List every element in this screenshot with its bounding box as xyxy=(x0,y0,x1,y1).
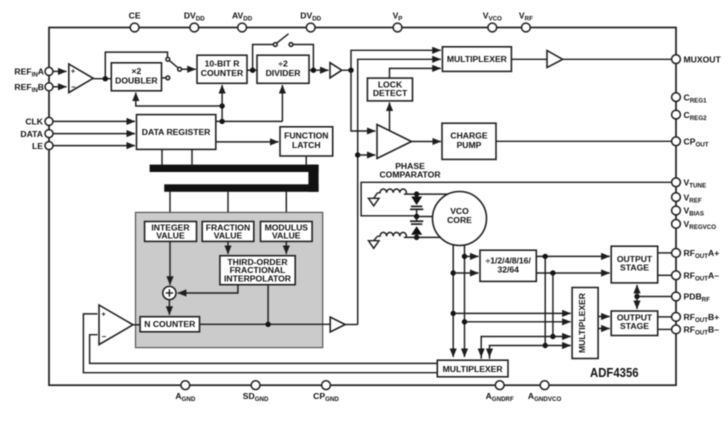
svg-text:FUNCTION: FUNCTION xyxy=(284,131,328,141)
left pin CLK xyxy=(25,117,53,127)
right pin PDBRF xyxy=(672,292,711,304)
wire data register R-control stub xyxy=(216,120,283,122)
svg-text:ADF4356: ADF4356 xyxy=(590,365,639,380)
wire divider out 1 down xyxy=(544,256,546,345)
wire LE to data register xyxy=(54,145,136,147)
wire interpolator to summer xyxy=(178,285,238,293)
svg-text:DATA REGISTER: DATA REGISTER xyxy=(142,127,211,137)
feedback comparator buffer xyxy=(99,305,133,345)
wire to RF divider input 2 xyxy=(453,272,478,274)
wire output stage A to RFoutA- xyxy=(658,274,672,276)
summer node xyxy=(163,286,176,299)
switch contact (doubler out) xyxy=(166,76,170,80)
wire mux to output buffer xyxy=(511,58,547,60)
node hook B xyxy=(550,334,555,339)
switch blade xyxy=(169,60,178,68)
wire output stage B to RFoutB- xyxy=(658,328,672,330)
sigma-delta engine block (gray) xyxy=(136,212,323,347)
wire R counter to divider xyxy=(247,69,257,71)
wire divider out 2 down xyxy=(552,273,554,337)
node RF divider input 2 xyxy=(451,270,456,275)
wire data register drop 1 to bus xyxy=(161,149,163,164)
switch contact left (divider bypass) xyxy=(273,43,277,47)
svg-text:STAGE: STAGE xyxy=(620,321,649,331)
N counter xyxy=(140,317,199,332)
charge pump xyxy=(442,123,496,159)
wire N counter output xyxy=(200,323,331,325)
wire buffer to feedback vertical xyxy=(345,324,358,326)
wire control vertical xyxy=(221,106,223,121)
phase comparator xyxy=(377,125,412,159)
svg-text:MULTIPLEXER: MULTIPLEXER xyxy=(577,292,587,353)
wire buffer out to doubler xyxy=(93,78,111,80)
node PDBRF xyxy=(634,294,639,299)
node divider out 1 xyxy=(543,254,548,259)
bottom pin CPGND xyxy=(313,381,339,403)
right pin RFOUTB+ xyxy=(672,312,720,324)
node after buffer xyxy=(348,68,353,73)
wire phase comparator to lock detect xyxy=(389,103,391,131)
doubler X2 xyxy=(111,63,161,91)
output stage B xyxy=(611,311,658,336)
node interpolator feedback xyxy=(265,322,270,327)
node RF divider input 1 xyxy=(462,254,467,259)
modulus value xyxy=(261,222,313,242)
ground symbol (top coil) xyxy=(369,193,380,206)
node varactor middle xyxy=(414,214,419,219)
arrow PDBRF to output stage A xyxy=(636,285,638,297)
wire top coil to VCO xyxy=(404,193,452,195)
wire VCO output B (right vertical) xyxy=(464,245,466,357)
svg-text:÷2: ÷2 xyxy=(278,58,288,68)
svg-text:DATA: DATA xyxy=(20,129,43,139)
svg-text:CHARGE: CHARGE xyxy=(450,131,488,141)
right pin RFOUTB- xyxy=(672,325,720,337)
inductor (top) xyxy=(378,189,407,194)
wire RF divider out 1 to output stage A xyxy=(536,255,609,257)
svg-text:DIVIDER: DIVIDER xyxy=(266,68,302,78)
node on stub xyxy=(219,119,224,124)
left pin LE xyxy=(32,141,53,151)
multiplexer (top) xyxy=(442,47,511,72)
wire summer to N counter xyxy=(168,300,170,315)
left pin REFinA xyxy=(14,67,53,79)
svg-text:CORE: CORE xyxy=(447,215,472,225)
bottom pin AGNDVCO xyxy=(528,381,562,403)
VCO core xyxy=(433,192,487,246)
wire interpolator down to N counter output xyxy=(267,285,269,325)
node varactor top xyxy=(414,191,419,196)
node hook A xyxy=(543,343,548,348)
wire RF divider out 2 to output stage A xyxy=(536,272,609,274)
wire divider to buffer xyxy=(309,69,329,71)
wire data register drop 2 to bus xyxy=(191,149,193,164)
node control tee xyxy=(219,103,224,108)
wire bypass to divider output node xyxy=(293,45,314,71)
switch contact (bypass) xyxy=(166,57,170,61)
wire divider bypass (up and over) xyxy=(253,45,274,71)
svg-text:+: + xyxy=(102,311,106,318)
svg-text:10-BIT R: 10-BIT R xyxy=(205,58,241,68)
wire CLK to data register xyxy=(54,120,136,122)
wire switch pole to R counter xyxy=(182,68,196,70)
node at divider output xyxy=(311,68,316,73)
svg-text:VALUE: VALUE xyxy=(272,231,301,241)
fraction value xyxy=(202,222,254,242)
svg-text:DOUBLER: DOUBLER xyxy=(115,76,158,86)
svg-text:PUMP: PUMP xyxy=(457,140,482,150)
right pin VTUNE xyxy=(672,178,706,190)
svg-text:32/64: 32/64 xyxy=(497,265,519,275)
wire doubler bypass (up and over) xyxy=(105,52,167,79)
right pin CPOUT xyxy=(672,137,709,149)
top pin DVDD (1) xyxy=(184,11,205,32)
svg-text:MULTIPLEXER: MULTIPLEXER xyxy=(443,364,504,374)
wire bus to fraction value xyxy=(227,192,229,222)
wire data register to function latch xyxy=(216,141,279,143)
wire vertical mux to output stage B in 1 xyxy=(598,316,610,318)
wire control to R counter bottom xyxy=(221,85,223,106)
integer value xyxy=(145,222,197,242)
data register xyxy=(137,115,216,150)
wire feedback vertical to mux input 2 xyxy=(358,59,441,324)
wire integer value to summer xyxy=(169,241,171,284)
chip outer border xyxy=(49,28,676,386)
node VCO B to vertical mux xyxy=(462,319,467,324)
wire VTUNE to varactors xyxy=(361,182,671,216)
wire REFinA to input buffer xyxy=(54,70,67,72)
wire VCO output A (left vertical) xyxy=(452,244,454,357)
top pin DVDD (2) xyxy=(300,11,321,32)
divider by 2 xyxy=(257,55,309,83)
wire vertical mux to output stage B in 2 xyxy=(598,328,610,330)
switch contact right xyxy=(289,43,293,47)
wire buffer to MUXOUT pin xyxy=(563,58,672,60)
svg-text:INTERPOLATOR: INTERPOLATOR xyxy=(224,274,292,284)
right pin CREG1 xyxy=(672,92,708,104)
wire hook B to vertical mux input 3 and bottom mux xyxy=(481,337,571,359)
wire VCO A to vertical mux input 1 xyxy=(453,312,571,314)
top pin AVDD xyxy=(232,11,253,32)
wire lock detect to mux input 3 xyxy=(390,68,441,78)
wire DATA to data register xyxy=(54,133,136,135)
wire buffer to mux input 1 (up) xyxy=(342,50,441,70)
svg-text:COUNTER: COUNTER xyxy=(201,68,244,78)
svg-text:–: – xyxy=(102,332,107,341)
svg-text:CE: CE xyxy=(129,11,141,21)
arrow hook B into bottom mux xyxy=(480,350,482,357)
wire feedback buffer to N counter xyxy=(133,324,140,326)
third-order fractional interpolator xyxy=(220,256,295,285)
wire charge pump to CPOUT pin xyxy=(496,140,672,142)
wire bus to integer value xyxy=(169,192,171,222)
right pin RFOUTA+ xyxy=(672,248,720,260)
bus bar right connector xyxy=(308,165,318,192)
wire output stage A to RFoutA+ xyxy=(658,252,672,254)
svg-text:LE: LE xyxy=(32,141,43,151)
arrow hook A into bottom mux xyxy=(489,350,491,357)
wire VCO B to vertical mux input 2 xyxy=(465,321,571,323)
ground symbol (bottom coil) xyxy=(369,236,380,248)
right pin VREGVCO xyxy=(672,219,717,231)
wire hook A to vertical mux input 4 and bottom mux xyxy=(490,346,571,359)
top pin VVCO xyxy=(483,11,502,32)
reference input buffer xyxy=(69,64,93,93)
wire bottom coil to VCO xyxy=(404,236,440,238)
multiplexer (vertical) xyxy=(572,288,598,359)
wire buffer node down to phase comparator input 1 xyxy=(351,70,375,131)
varactor diode upper (down) xyxy=(410,194,423,216)
right pin RFOUTA- xyxy=(672,271,720,283)
svg-text:MUXOUT: MUXOUT xyxy=(684,54,722,64)
right pin VBIAS xyxy=(672,206,704,218)
wire phase comparator to charge pump xyxy=(412,141,441,143)
wire function latch drop to bus xyxy=(305,156,307,165)
wire output stage B to RFoutB+ xyxy=(658,316,672,318)
arrow PDBRF to output stage B xyxy=(636,297,638,310)
top pin VRF xyxy=(519,11,533,32)
svg-text:N COUNTER: N COUNTER xyxy=(144,319,196,329)
inductor (bottom) xyxy=(378,232,407,237)
switch blade (open, raised) xyxy=(277,34,289,43)
wire PDBRF pin xyxy=(637,296,672,298)
wire bmux output B to feedback - input xyxy=(90,335,438,364)
10-bit R counter xyxy=(197,55,247,83)
lock detect xyxy=(367,78,412,101)
switch pole contact xyxy=(178,67,182,71)
bottom pin SDGND xyxy=(243,381,269,403)
node varactor bottom xyxy=(414,235,419,240)
output stage A xyxy=(611,246,658,283)
left pin REFinB xyxy=(14,82,53,94)
wire control to divider bottom xyxy=(281,85,283,121)
wire bmux output A to feedback + input xyxy=(83,314,437,373)
svg-text:DETECT: DETECT xyxy=(373,88,408,98)
bus bar lower xyxy=(164,184,318,192)
svg-text:STAGE: STAGE xyxy=(620,263,649,273)
wire bus to modulus value xyxy=(285,192,287,222)
wire feedback node to phase comparator input 2 xyxy=(358,154,376,156)
wire doubler output stub xyxy=(162,77,166,79)
svg-text:MULTIPLEXER: MULTIPLEXER xyxy=(447,54,508,64)
node VCO A to vertical mux xyxy=(451,311,456,316)
label phase comparator xyxy=(379,161,441,180)
reference path buffer xyxy=(330,63,342,78)
svg-text:–: – xyxy=(71,83,76,92)
svg-text:COMPARATOR: COMPARATOR xyxy=(379,170,441,180)
RF divider 1/2/4/8/16/32/64 xyxy=(480,250,536,281)
function latch xyxy=(280,127,333,156)
bottom pin AGND xyxy=(175,381,196,403)
right pin VREF xyxy=(672,192,702,204)
bus bar upper xyxy=(150,165,319,172)
muxout buffer xyxy=(547,51,563,68)
right pin MUXOUT xyxy=(672,54,722,64)
svg-text:VALUE: VALUE xyxy=(214,231,243,241)
svg-text:×2: ×2 xyxy=(131,66,141,76)
multiplexer (bottom) xyxy=(437,360,508,377)
N counter output buffer xyxy=(330,317,345,332)
wire modulus to interpolator xyxy=(285,241,287,254)
node on feedback at phase comparator xyxy=(355,152,360,157)
wire fraction to interpolator xyxy=(227,241,229,254)
wire varactor middle to VCO xyxy=(417,216,434,218)
node at doubler input xyxy=(103,76,108,81)
wire REFinB to input buffer xyxy=(54,86,67,88)
varactor diode lower (up) xyxy=(410,217,423,238)
svg-text:CLK: CLK xyxy=(25,117,43,127)
svg-text:VALUE: VALUE xyxy=(156,231,185,241)
node divider out 2 xyxy=(550,270,555,275)
wire to RF divider input 1 xyxy=(465,255,479,257)
svg-text:LATCH: LATCH xyxy=(292,140,320,150)
top pin CE xyxy=(129,11,141,32)
node at divider input xyxy=(250,68,255,73)
bottom pin AGNDRF xyxy=(486,381,514,403)
left pin DATA xyxy=(20,129,53,139)
right pin CREG2 xyxy=(672,110,708,122)
wire control to doubler bottom xyxy=(136,93,222,107)
top pin VP xyxy=(393,11,403,32)
svg-text:+: + xyxy=(71,68,75,75)
